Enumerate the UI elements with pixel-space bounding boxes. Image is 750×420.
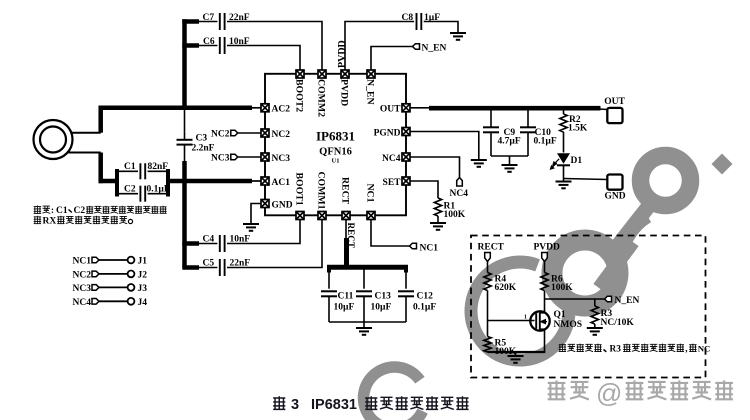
ground (IC GND) bbox=[243, 223, 259, 225]
wire to GND pad bbox=[564, 179, 608, 180]
node NC1 connector bbox=[410, 243, 417, 249]
pin NC1 (bottom) bbox=[367, 212, 375, 220]
wire R6 to Q1 drain bbox=[544, 291, 546, 314]
capacitor C10 bbox=[527, 111, 529, 128]
svg-text:R3: R3 bbox=[610, 344, 622, 354]
wire C6 to BOOT2 bbox=[227, 46, 300, 70]
svg-text:OUT: OUT bbox=[380, 105, 401, 115]
pin OUT (right) bbox=[402, 104, 410, 112]
svg-text:COMM1: COMM1 bbox=[316, 172, 327, 210]
svg-text:NC1: NC1 bbox=[420, 244, 439, 254]
svg-text:J2: J2 bbox=[138, 270, 148, 280]
wire source rail bbox=[488, 351, 546, 353]
svg-text:OUT: OUT bbox=[604, 97, 625, 107]
svg-text:,: , bbox=[685, 344, 687, 354]
wire NC2 bbox=[238, 132, 261, 134]
svg-text:NC4: NC4 bbox=[382, 154, 401, 164]
node C1/C2 left bar bbox=[115, 169, 119, 197]
wire OUT rail (thick) bbox=[429, 106, 601, 111]
resistor R6 bbox=[541, 273, 548, 291]
svg-text:NC4: NC4 bbox=[73, 298, 92, 308]
pin NC4 (right) bbox=[402, 153, 410, 161]
capacitor C12 bbox=[405, 269, 407, 289]
wire C3 top lead bbox=[184, 108, 186, 132]
ground (C8) bbox=[450, 32, 466, 34]
note text line 1 bbox=[34, 205, 41, 213]
pin PGND (right) bbox=[402, 128, 410, 136]
svg-text:N_EN: N_EN bbox=[365, 79, 376, 105]
node C1/C2 right bar bbox=[166, 169, 170, 197]
wire AC2 row to pin AC2 bbox=[250, 107, 261, 109]
design note text bbox=[559, 344, 566, 352]
pin BOOT1 (bottom) bbox=[296, 212, 304, 220]
capacitor C6 bbox=[182, 43, 199, 48]
transistor Q1 NMOS bbox=[530, 311, 549, 330]
wire gate bbox=[488, 320, 535, 322]
wire RECT pin down bbox=[345, 220, 347, 240]
svg-text:J3: J3 bbox=[138, 284, 148, 294]
wire C1 branch bbox=[117, 170, 138, 172]
svg-text:C2: C2 bbox=[124, 185, 136, 195]
ground (output) bbox=[556, 181, 572, 183]
resistor R5 bbox=[484, 337, 491, 353]
pin NC3 (left) bbox=[261, 153, 269, 161]
svg-text:C1: C1 bbox=[56, 206, 68, 216]
svg-text:D1: D1 bbox=[571, 156, 583, 166]
node GND pad bbox=[607, 175, 622, 190]
wire NC4 pin bbox=[410, 157, 459, 178]
pin RECT (bottom) bbox=[342, 212, 350, 220]
node N_EN connector bbox=[413, 44, 420, 50]
ground (R3) bbox=[587, 327, 603, 329]
wire PGND to ground bbox=[410, 132, 479, 160]
pin N_EN (top) bbox=[367, 70, 375, 78]
watermark letter C (bottom center) bbox=[364, 367, 423, 420]
note text line 2 bbox=[34, 216, 41, 224]
watermark period (diamond) bbox=[712, 154, 733, 175]
pin COMM1 (bottom) bbox=[318, 212, 326, 220]
svg-text:J4: J4 bbox=[138, 298, 148, 308]
svg-text:C2: C2 bbox=[74, 206, 86, 216]
wire resonant bus upper (thick, C7/C6 to AC2) bbox=[182, 19, 187, 110]
svg-text:NC2: NC2 bbox=[272, 130, 291, 140]
wire SET pin bbox=[410, 181, 438, 198]
svg-text:NC3: NC3 bbox=[272, 154, 291, 164]
svg-text:100K: 100K bbox=[444, 210, 466, 220]
svg-text:NC: NC bbox=[698, 343, 711, 353]
ground (R1) bbox=[430, 222, 446, 224]
wire PVDD to R6 bbox=[544, 262, 546, 273]
svg-text:NMOS: NMOS bbox=[554, 320, 583, 330]
wire C4 to BOOT1 bbox=[227, 220, 300, 244]
svg-text:3: 3 bbox=[291, 397, 299, 413]
wire AC2 bus corner (thick) bbox=[98, 106, 103, 133]
pin NC2 (left) bbox=[261, 129, 269, 137]
capacitor C2 bbox=[139, 186, 141, 202]
svg-text:2.2nF: 2.2nF bbox=[192, 144, 215, 154]
caption bbox=[273, 396, 285, 410]
node OUT pad bbox=[607, 108, 622, 123]
svg-text:PVDD: PVDD bbox=[337, 40, 348, 68]
svg-text:RECT: RECT bbox=[340, 177, 351, 205]
svg-text:PVDD: PVDD bbox=[339, 79, 350, 106]
svg-text:AC2: AC2 bbox=[272, 105, 291, 115]
wire coil bottom lead to AC1 bus bbox=[69, 152, 101, 154]
diode D1 (LED) bbox=[557, 153, 570, 164]
svg-text:100K: 100K bbox=[551, 283, 573, 293]
svg-text:NC3: NC3 bbox=[211, 154, 230, 164]
svg-text:SET: SET bbox=[383, 178, 402, 188]
svg-text:IP6831: IP6831 bbox=[316, 129, 355, 144]
svg-text:PGND: PGND bbox=[374, 128, 401, 138]
svg-text:COMM2: COMM2 bbox=[316, 79, 327, 117]
svg-text:C8: C8 bbox=[402, 13, 414, 23]
pin SET (right) bbox=[402, 177, 410, 185]
svg-text:NC1: NC1 bbox=[73, 257, 92, 267]
wire AC2 row (thick) bbox=[99, 106, 253, 111]
wire AC1 row right (thick) bbox=[168, 179, 252, 184]
node RECT connector bbox=[485, 253, 491, 262]
wire N_EN pin up bbox=[371, 47, 413, 70]
capacitor C13 bbox=[363, 269, 365, 289]
wire resonant bus lower (thick, AC1 to C4/C5) bbox=[182, 161, 187, 268]
pin AC1 (left) bbox=[261, 177, 269, 185]
wire rail to OUT pad bbox=[599, 108, 607, 111]
svg-text:NC3: NC3 bbox=[73, 284, 92, 294]
wire NC1 pin bbox=[371, 220, 410, 246]
svg-text:82nF: 82nF bbox=[148, 162, 169, 172]
wire PVDD pin up bbox=[345, 22, 414, 70]
svg-text:C11: C11 bbox=[338, 292, 354, 302]
wire C2 branch bbox=[117, 193, 138, 195]
resistor R2 bbox=[563, 111, 565, 115]
svg-text:4.7µF: 4.7µF bbox=[498, 137, 521, 147]
resistor R3 bbox=[594, 299, 596, 306]
watermark letter r bbox=[599, 242, 633, 288]
svg-text:NC2: NC2 bbox=[73, 270, 92, 280]
pin BOOT2 (top) bbox=[296, 70, 304, 78]
wire RECT to R4 bbox=[487, 262, 489, 273]
capacitor C4 bbox=[182, 241, 199, 246]
wire AC1 bus corner (thick) bbox=[98, 153, 103, 184]
wire Q1 source down bbox=[544, 329, 546, 352]
svg-text:BOOT1: BOOT1 bbox=[294, 173, 305, 206]
capacitor C11 bbox=[328, 269, 330, 289]
svg-text:10µF: 10µF bbox=[371, 303, 392, 313]
RX coil L1 bbox=[34, 120, 73, 159]
resistor R4 bbox=[484, 273, 491, 291]
svg-text:0.1µF: 0.1µF bbox=[147, 185, 170, 195]
svg-text:NC/10K: NC/10K bbox=[601, 318, 635, 328]
pin PVDD (top) bbox=[341, 70, 349, 78]
svg-text:C3: C3 bbox=[196, 134, 208, 144]
wire C7 to COMM2 bbox=[227, 22, 322, 70]
wire GND pin to ground bbox=[251, 204, 261, 225]
wire RECT bus (thick) bbox=[344, 238, 349, 266]
svg-text:PVDD: PVDD bbox=[534, 242, 561, 252]
svg-text:C5: C5 bbox=[203, 259, 215, 269]
wire to ground (source) bbox=[515, 352, 517, 356]
wire C11/C13/C12 bottom rail bbox=[329, 321, 406, 323]
node N_EN connector bbox=[605, 296, 612, 302]
capacitor C7 bbox=[182, 19, 199, 24]
svg-text:NC2: NC2 bbox=[211, 130, 230, 140]
svg-text:AC1: AC1 bbox=[272, 178, 291, 188]
ground (C9/C10) bbox=[502, 164, 518, 166]
ground (PGND) bbox=[471, 159, 487, 161]
svg-text:C6: C6 bbox=[203, 37, 215, 47]
svg-text:0.1µF: 0.1µF bbox=[534, 137, 557, 147]
svg-text:C13: C13 bbox=[375, 292, 392, 302]
wire AC1 row left (thick) bbox=[99, 179, 120, 184]
wire C5 to COMM1 bbox=[227, 220, 322, 268]
svg-text:U1: U1 bbox=[332, 158, 340, 165]
ground (cap bank) bbox=[356, 327, 372, 329]
svg-text:NC4: NC4 bbox=[450, 189, 469, 199]
svg-text:N_EN: N_EN bbox=[422, 44, 447, 54]
wire C9/C10 bottom bbox=[491, 155, 528, 157]
capacitor C3 bbox=[177, 139, 193, 141]
svg-text:RX: RX bbox=[43, 216, 57, 226]
wire R4 to gate node bbox=[487, 291, 489, 337]
pin COMM2 (top) bbox=[318, 70, 326, 78]
svg-text:BOOT2: BOOT2 bbox=[294, 79, 305, 112]
svg-text::: : bbox=[51, 206, 54, 216]
svg-text:C4: C4 bbox=[203, 235, 215, 245]
capacitor C9 bbox=[490, 111, 492, 128]
svg-text:IP6831: IP6831 bbox=[311, 397, 357, 413]
watermark letter p bbox=[612, 207, 648, 253]
svg-text:N_EN: N_EN bbox=[615, 296, 640, 306]
pin GND (left) bbox=[261, 200, 269, 208]
svg-text:620K: 620K bbox=[495, 283, 517, 293]
wire NC3 bbox=[238, 156, 261, 158]
svg-text:C7: C7 bbox=[203, 13, 215, 23]
watermark zhihu text bbox=[548, 380, 566, 400]
pin AC2 (left) bbox=[261, 104, 269, 112]
svg-text:Q1: Q1 bbox=[554, 310, 566, 320]
capacitor C1 bbox=[139, 163, 141, 179]
wire to ground (output) bbox=[563, 179, 565, 182]
watermark letter C (lower right, diagonal) bbox=[471, 262, 569, 360]
svg-text:J1: J1 bbox=[138, 257, 148, 267]
op-amp U1 IP6831 QFN16 body bbox=[265, 74, 406, 216]
wire C8 to ground bbox=[424, 22, 458, 34]
node PVDD connector bbox=[542, 253, 548, 262]
svg-text:RECT: RECT bbox=[478, 242, 505, 252]
wire to ground (cap bank) bbox=[363, 322, 365, 328]
wire N_EN tap bbox=[545, 298, 605, 300]
svg-text:C1: C1 bbox=[124, 162, 136, 172]
wire AC1 row to pin AC1 bbox=[250, 180, 261, 182]
wire OUT pin bbox=[410, 107, 430, 109]
resistor R1 bbox=[434, 198, 441, 216]
wire coil top lead to AC2 bus bbox=[72, 132, 101, 134]
watermark letter o bbox=[552, 240, 618, 306]
node NC4 connector bbox=[457, 178, 463, 187]
wire RECT rail (thick) bbox=[327, 265, 408, 270]
svg-text:1: 1 bbox=[524, 315, 527, 321]
svg-text:NC1: NC1 bbox=[365, 184, 376, 203]
svg-text:10µF: 10µF bbox=[334, 303, 355, 313]
svg-text:0.1µF: 0.1µF bbox=[413, 303, 436, 313]
svg-text:1.5K: 1.5K bbox=[568, 124, 588, 134]
svg-text:GND: GND bbox=[272, 200, 293, 210]
capacitor C5 bbox=[182, 265, 199, 270]
svg-text:C12: C12 bbox=[417, 292, 434, 302]
ground (source rail) bbox=[508, 355, 524, 357]
svg-text:@: @ bbox=[596, 378, 622, 408]
svg-text:GND: GND bbox=[604, 192, 625, 202]
capacitor C8 bbox=[416, 13, 418, 30]
dashed option box bbox=[471, 236, 706, 378]
svg-text:QFN16: QFN16 bbox=[319, 147, 352, 158]
